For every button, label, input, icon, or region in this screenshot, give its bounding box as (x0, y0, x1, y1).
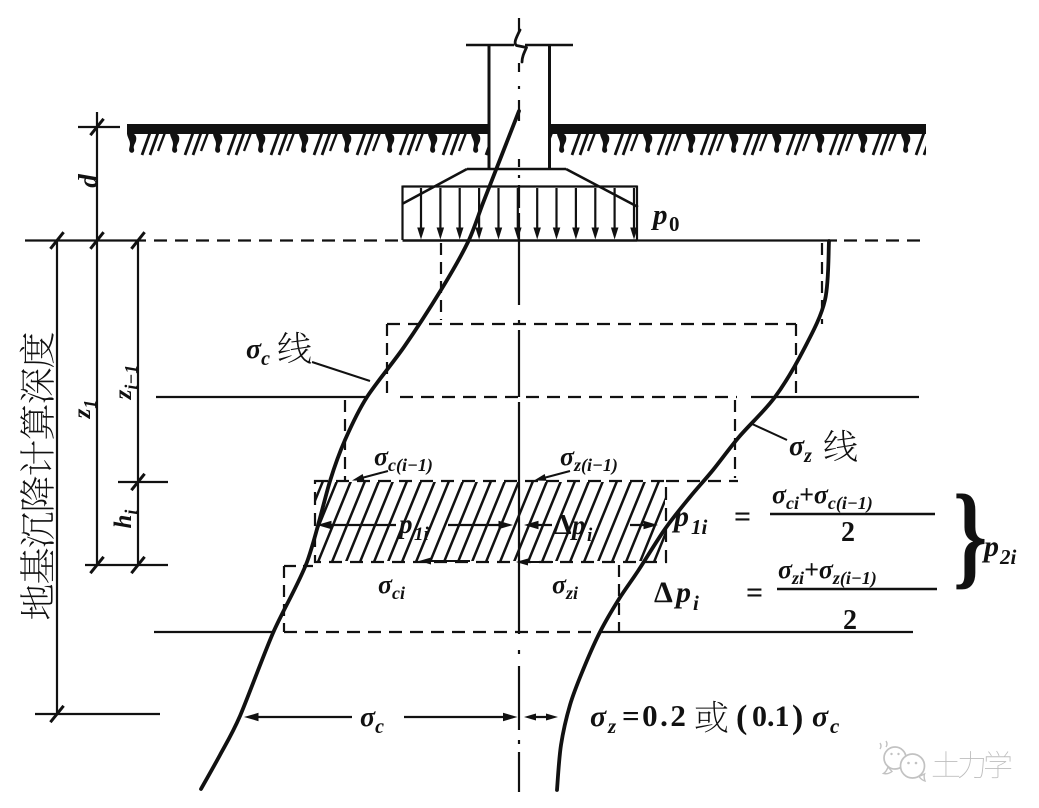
p1i arrow (322, 524, 396, 526)
base level line right solid (637, 239, 837, 241)
step vertical x345 (344, 400, 346, 481)
svg-text:σci+σc(i−1): σci+σc(i−1) (772, 480, 873, 514)
svg-text:0: 0 (669, 212, 680, 236)
ground level extension line (78, 126, 120, 128)
svg-text:): ) (792, 699, 803, 736)
sigma-c(i-1) arrow (356, 471, 388, 480)
sigma-c dim arrow (244, 713, 259, 721)
watermark text (933, 751, 1011, 778)
svg-text:Δ: Δ (554, 510, 572, 541)
svg-text:z: z (607, 714, 617, 738)
svg-text:(: ( (736, 699, 747, 736)
delta-pi arrow (529, 524, 552, 526)
svg-text:d: d (73, 174, 103, 188)
svg-text:=: = (734, 500, 751, 533)
step vertical x735 (734, 400, 736, 478)
svg-text:σci: σci (378, 570, 405, 603)
footing pedestal top (467, 168, 566, 171)
svg-text:}: } (953, 472, 987, 600)
tick zi-1 bottom (131, 474, 144, 490)
svg-text:σc: σc (360, 702, 384, 738)
centre axis line (dash-dot) (518, 18, 520, 792)
extension line at z1 bottom (85, 564, 168, 566)
tick z1 bottom (90, 557, 103, 573)
watermark icon (880, 741, 925, 781)
ground surface band right (551, 124, 926, 158)
dim line total depth (56, 241, 58, 715)
column break symbol (515, 30, 526, 62)
step vertical x387 (386, 324, 388, 397)
layer line y397 dashed (400, 396, 737, 398)
tick base dim3 (131, 232, 144, 249)
ground surface top edge right (551, 124, 926, 127)
dim line zi-1 / hi (137, 241, 139, 566)
step horizontal y481 extension (666, 480, 738, 482)
sigma-z(i-1) arrow (538, 471, 570, 480)
svg-text:p: p (671, 500, 689, 533)
layer line y397 solid left (156, 396, 368, 398)
step vertical x441 (440, 243, 442, 320)
tick total depth bottom (50, 706, 63, 722)
svg-text:σz: σz (789, 431, 812, 467)
vertical text ground-settlement-depth (20, 333, 54, 619)
column top line right (525, 44, 573, 47)
layer line y397 solid right (751, 396, 919, 398)
load arrows p0 (417, 188, 638, 240)
svg-text:1i: 1i (691, 515, 708, 539)
sigma-c curve (201, 111, 519, 789)
svg-text:=: = (746, 576, 763, 609)
sigma-zi arrow (521, 561, 553, 563)
svg-text:σc: σc (246, 334, 270, 370)
column top line left (466, 44, 514, 47)
svg-text:p: p (397, 509, 413, 539)
hatched layer border (315, 481, 666, 562)
svg-text:p: p (981, 530, 999, 563)
svg-text:σzi: σzi (552, 570, 578, 603)
step vertical x619 (618, 565, 620, 632)
tick hi bottom (131, 557, 144, 573)
step horizontal x284-315 y566 (284, 565, 313, 567)
step vertical x822 (821, 243, 823, 324)
sigma-c-line pointer (312, 362, 370, 381)
step horizontal y324 (387, 323, 796, 325)
svg-text:σzi+σz(i−1): σzi+σz(i−1) (778, 555, 877, 589)
dim line z1 / d (96, 112, 98, 565)
step vertical x796 (795, 324, 797, 394)
svg-text:p: p (650, 199, 668, 231)
svg-text:σ: σ (590, 700, 607, 733)
brace (953, 472, 987, 600)
sigma-z gap arrow (524, 714, 536, 721)
footing right haunch (566, 169, 638, 207)
svg-text:σc(i−1): σc(i−1) (374, 442, 433, 476)
base level line right dashed (844, 239, 928, 241)
svg-text:zi−1: zi−1 (110, 365, 141, 401)
svg-text:i: i (693, 591, 699, 615)
base level line (box bottom) (403, 239, 638, 241)
svg-text:p: p (570, 510, 586, 540)
base level line left solid (25, 239, 146, 241)
tick d top (90, 119, 103, 135)
svg-text:2: 2 (841, 517, 855, 548)
ground surface band left (127, 124, 488, 158)
column left edge (488, 45, 491, 169)
svg-text:p: p (673, 576, 691, 609)
formula p1i bar (770, 513, 935, 515)
layer line y632 solid left (154, 631, 275, 633)
column right edge (548, 45, 551, 169)
sigma-z curve (557, 241, 829, 790)
sigma-z-line pointer (750, 423, 787, 440)
ground surface top edge left (127, 124, 488, 127)
step vertical x284 (283, 566, 285, 632)
sigma-ci arrow (424, 560, 470, 562)
svg-text:=0.2: =0.2 (622, 698, 688, 733)
tick base dim2 (90, 232, 103, 249)
layer line y632 dashed (284, 631, 597, 633)
svg-text:0.1: 0.1 (752, 700, 790, 733)
svg-text:i: i (587, 525, 593, 546)
svg-text:c: c (830, 714, 840, 738)
svg-text:hi: hi (110, 510, 141, 529)
base level line dashed left (154, 239, 398, 241)
svg-text:2: 2 (843, 605, 857, 636)
load diagram box (403, 186, 638, 241)
bottom depth extension line (35, 713, 160, 715)
formula dpi bar (777, 588, 937, 590)
svg-text:σ: σ (812, 700, 829, 733)
svg-text:Δ: Δ (654, 576, 673, 609)
footing left haunch (402, 169, 467, 204)
svg-text:z1: z1 (69, 400, 100, 420)
svg-text:2i: 2i (999, 545, 1017, 569)
tick base dim1 (50, 232, 63, 249)
svg-text:1i: 1i (414, 524, 430, 545)
extension line at zi-1 bottom (118, 481, 168, 483)
layer line y632 solid right (601, 631, 913, 633)
